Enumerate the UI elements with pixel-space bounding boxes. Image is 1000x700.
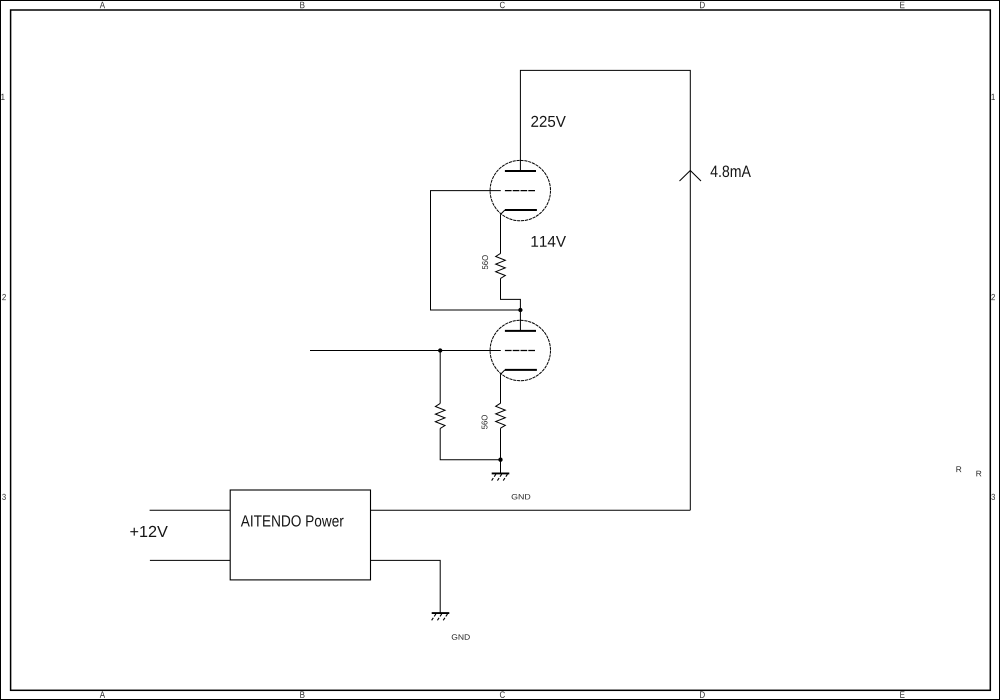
net label +12V (130, 526, 168, 537)
stray refdes R (lower) (976, 471, 981, 477)
triode V1 (upper) (490, 160, 550, 220)
net label GND (GND1) (512, 494, 531, 500)
resistor R2 (grid resistor) (435, 403, 445, 428)
current label 4.8mA (711, 166, 751, 178)
net label 225V (531, 116, 566, 127)
wire V1 grid loop to junction node (431, 191, 521, 310)
power module PS1 AITENDO Power (230, 490, 370, 580)
wire grid node down to R2 (439, 351, 441, 404)
junction node (V2 grid / R2) (438, 348, 442, 352)
wire V2 cathode to R3 (500, 374, 502, 403)
resistor R3 56O (lower cathode) (496, 403, 506, 428)
wire B+ rail from V1 plate up across and down right side (520, 70, 690, 510)
wire PS1 ground output (371, 560, 441, 613)
value label 56O for R3 (482, 415, 488, 429)
resistor R1 56O (upper cathode) (496, 253, 506, 278)
wire +12V input bottom (150, 559, 230, 561)
wire V2 grid input (310, 350, 501, 352)
net label 114V (532, 236, 567, 247)
stray refdes R (upper) (956, 466, 961, 472)
wire PS1 output to B+ rail (371, 509, 691, 511)
ground symbol GND2 (432, 613, 450, 620)
wire R3 bottom to ground node (500, 428, 502, 460)
wire R1 bottom to junction (501, 278, 521, 310)
label AITENDO Power (241, 515, 344, 526)
junction node (V1 grid / R1 / V2 plate) (518, 308, 522, 312)
wire +12V input top (150, 509, 231, 511)
ground symbol GND1 (492, 460, 510, 481)
wire V1 cathode to R1 (500, 214, 502, 253)
current arrow 4.8mA (680, 171, 702, 182)
triode V2 (lower) (490, 320, 550, 380)
junction node (R2 / R3 / GND1) (498, 458, 502, 462)
wire junction to V2 plate (519, 310, 521, 331)
value label 56O for R1 (482, 255, 488, 269)
wire R2 bottom to ground node (440, 428, 500, 459)
net label GND (GND2) (452, 634, 470, 640)
